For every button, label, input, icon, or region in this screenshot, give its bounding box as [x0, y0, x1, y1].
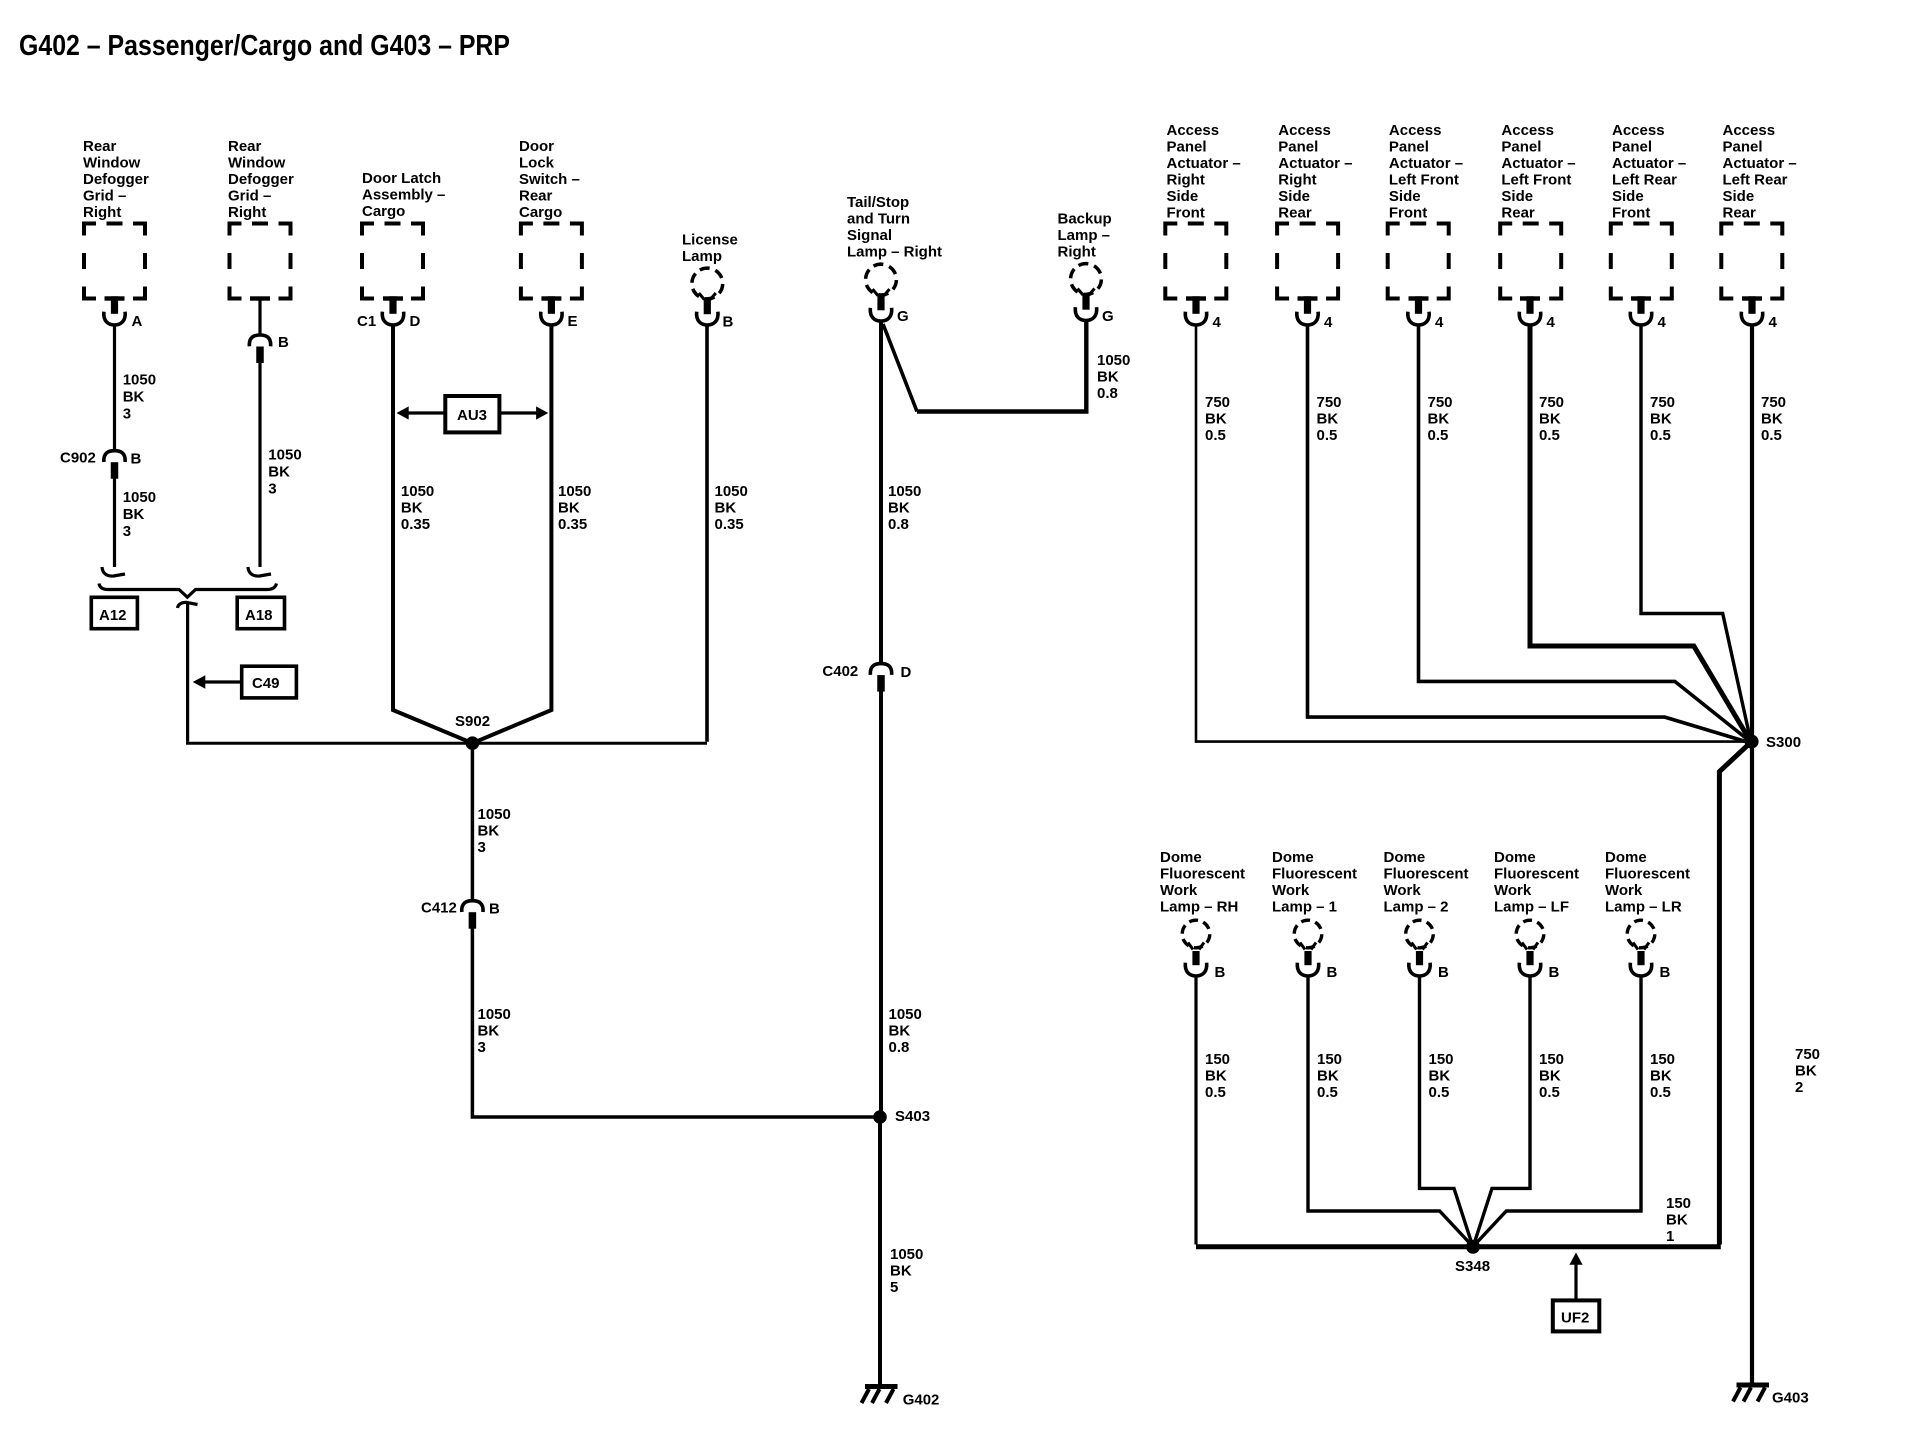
svg-text:Panel: Panel: [1501, 139, 1541, 156]
svg-text:S300: S300: [1766, 734, 1801, 751]
wire label 1050 BK 3 (S902-C412): [478, 806, 511, 856]
harness reference AU3 box: [445, 396, 499, 432]
svg-text:Lamp: Lamp: [682, 248, 722, 265]
svg-text:D: D: [410, 313, 421, 330]
component box: Rear Window Defogger Grid - Right (1): [84, 224, 145, 299]
svg-text:750: 750: [1650, 394, 1675, 411]
svg-text:Panel: Panel: [1723, 139, 1763, 156]
svg-text:BK: BK: [889, 1023, 911, 1040]
svg-text:Work: Work: [1160, 882, 1198, 899]
svg-text:1050: 1050: [888, 483, 921, 500]
svg-text:Side: Side: [1167, 188, 1199, 205]
wire: actuator 6 down through S300 to ground G403: [1750, 327, 1754, 1386]
svg-text:Door Latch: Door Latch: [362, 170, 441, 187]
wire label 1050 BK 0.8 (tail lamp upper): [888, 483, 921, 533]
svg-text:Access: Access: [1723, 122, 1776, 139]
svg-text:Work: Work: [1494, 882, 1532, 899]
svg-text:BK: BK: [715, 500, 737, 517]
svg-text:150: 150: [1539, 1051, 1564, 1068]
svg-text:Fluorescent: Fluorescent: [1605, 866, 1690, 883]
svg-text:Actuator –: Actuator –: [1501, 155, 1575, 172]
svg-text:Left Rear: Left Rear: [1723, 172, 1788, 189]
wire: S902 down to C412: [471, 743, 475, 901]
svg-text:BK: BK: [1097, 369, 1119, 386]
svg-text:BK: BK: [1666, 1212, 1688, 1229]
svg-text:1050: 1050: [478, 806, 511, 823]
wire label 1050 BK 0.35 (door lock): [558, 483, 591, 533]
svg-text:S403: S403: [895, 1108, 930, 1125]
svg-text:0.8: 0.8: [888, 516, 909, 533]
svg-text:G: G: [1102, 308, 1114, 325]
wire label 750 BK 0.5 (5): [1650, 394, 1675, 444]
svg-text:Switch –: Switch –: [519, 171, 580, 188]
svg-text:UF2: UF2: [1561, 1310, 1589, 1327]
wire: brace down to splice bus: [186, 603, 189, 742]
component box: Door Latch Assembly - Cargo: [362, 224, 423, 299]
svg-text:750: 750: [1795, 1046, 1820, 1063]
svg-text:1050: 1050: [715, 483, 748, 500]
component box: Access Panel Actuator - Left Front Side Rear: [1500, 224, 1561, 299]
svg-text:BK: BK: [558, 500, 580, 517]
component label: Dome Fluorescent Work Lamp - RH: [1160, 849, 1245, 916]
splice S403: [873, 1110, 887, 1124]
svg-text:750: 750: [1761, 394, 1786, 411]
splice S348: [1466, 1240, 1480, 1254]
svg-text:0.5: 0.5: [1650, 1084, 1671, 1101]
splice S902: [466, 736, 480, 750]
svg-text:Cargo: Cargo: [519, 204, 562, 221]
lamp symbol: Dome Fluorescent Work Lamp - LF: [1511, 915, 1549, 976]
wire: S403 down to ground G402: [878, 1117, 882, 1385]
svg-text:BK: BK: [1650, 1068, 1672, 1085]
wire: backup lamp down and left: [917, 322, 1086, 412]
connector pin 4 of Access Panel Actuator - Left Front Side Rear: [1519, 296, 1540, 325]
svg-text:BK: BK: [888, 500, 910, 517]
wire: actuator 4 to S300: [1530, 327, 1750, 741]
wire label 1050 BK 0.8 (C402-S403): [889, 1006, 922, 1056]
wire: door lock down: [472, 327, 551, 744]
component label: Rear Window Defogger Grid - Right (2): [228, 138, 294, 221]
svg-text:1050: 1050: [401, 483, 434, 500]
lamp symbol: Dome Fluorescent Work Lamp - LR: [1622, 915, 1660, 976]
wire: diagonal from tail lamp joint to backup lamp run: [883, 324, 917, 412]
wire label 750 BK 0.5 (6): [1761, 394, 1786, 444]
svg-text:BK: BK: [401, 500, 423, 517]
svg-text:BK: BK: [123, 506, 145, 523]
svg-text:B: B: [131, 451, 142, 468]
svg-text:BK: BK: [1761, 411, 1783, 428]
svg-text:Window: Window: [83, 155, 141, 172]
svg-text:Lamp – 1: Lamp – 1: [1272, 899, 1337, 916]
component box: Access Panel Actuator - Right Side Rear: [1277, 224, 1338, 299]
svg-text:3: 3: [268, 481, 276, 498]
svg-text:Cargo: Cargo: [362, 203, 405, 220]
svg-text:Actuator –: Actuator –: [1167, 155, 1241, 172]
terminal box A18: [237, 597, 284, 628]
svg-text:Fluorescent: Fluorescent: [1272, 866, 1357, 883]
svg-text:Front: Front: [1612, 205, 1650, 222]
svg-text:Left Rear: Left Rear: [1612, 172, 1677, 189]
svg-text:Access: Access: [1389, 122, 1442, 139]
svg-text:0.5: 0.5: [1761, 427, 1782, 444]
terminal box A12: [91, 597, 137, 628]
svg-text:Front: Front: [1389, 205, 1427, 222]
connector reference C49 box: [242, 666, 297, 698]
svg-text:BK: BK: [268, 464, 290, 481]
svg-text:1050: 1050: [123, 372, 156, 389]
component label: Door Lock Switch - Rear Cargo: [519, 138, 580, 221]
svg-text:150: 150: [1429, 1051, 1454, 1068]
svg-text:0.5: 0.5: [1539, 427, 1560, 444]
component label: Access Panel Actuator - Right Side Front: [1167, 122, 1241, 222]
svg-text:Fluorescent: Fluorescent: [1160, 866, 1245, 883]
svg-text:Defogger: Defogger: [83, 171, 149, 188]
svg-text:150: 150: [1650, 1051, 1675, 1068]
component box: Access Panel Actuator - Right Side Front: [1165, 224, 1226, 299]
svg-text:C412: C412: [421, 900, 457, 917]
svg-text:150: 150: [1317, 1051, 1342, 1068]
arrow from C49 to wire: [205, 680, 242, 683]
lamp symbol: License Lamp: [686, 263, 728, 325]
component label: Access Panel Actuator - Left Rear Side Front: [1612, 122, 1686, 222]
component box: Access Panel Actuator - Left Front Side Front: [1388, 224, 1449, 299]
svg-text:A12: A12: [99, 607, 127, 624]
svg-text:Right: Right: [1058, 244, 1096, 261]
svg-text:Grid –: Grid –: [83, 188, 126, 205]
svg-text:BK: BK: [1205, 1068, 1227, 1085]
connector C1 pin D of Door Latch: [382, 296, 403, 325]
svg-text:Dome: Dome: [1160, 849, 1202, 866]
svg-text:Side: Side: [1723, 188, 1755, 205]
svg-text:Rear: Rear: [1723, 205, 1757, 222]
svg-text:C49: C49: [252, 675, 280, 692]
svg-text:B: B: [1438, 964, 1449, 981]
svg-text:Defogger: Defogger: [228, 171, 294, 188]
svg-text:Window: Window: [228, 155, 286, 172]
ground symbol G402: [862, 1387, 898, 1404]
wire: dome lamp 1 to S348: [1308, 978, 1471, 1245]
svg-text:Grid –: Grid –: [228, 188, 271, 205]
svg-text:3: 3: [123, 523, 131, 540]
component label: Dome Fluorescent Work Lamp - 2: [1384, 849, 1469, 916]
svg-text:B: B: [723, 314, 734, 331]
svg-text:BK: BK: [1317, 411, 1339, 428]
svg-text:E: E: [568, 313, 578, 330]
hook below brace: [178, 602, 198, 608]
svg-text:750: 750: [1205, 394, 1230, 411]
wire label 750 BK 0.5 (1): [1205, 394, 1230, 444]
lamp symbol: Dome Fluorescent Work Lamp - 1: [1289, 915, 1327, 976]
svg-text:Rear: Rear: [83, 138, 117, 155]
wire: C412 down and right to S403: [472, 928, 880, 1117]
svg-text:C902: C902: [60, 450, 96, 467]
UF2 arrow up to bus: [1574, 1264, 1577, 1300]
component box: Door Lock Switch - Rear Cargo: [521, 224, 582, 299]
svg-text:Access: Access: [1501, 122, 1554, 139]
wire label 750 BK 0.5 (2): [1317, 394, 1342, 444]
svg-text:1050: 1050: [558, 483, 591, 500]
svg-text:Panel: Panel: [1278, 139, 1318, 156]
wire label 750 BK 0.5 (4): [1539, 394, 1564, 444]
component label: Access Panel Actuator - Right Side Rear: [1278, 122, 1352, 222]
in-line connector pin B of grid 2: [249, 335, 270, 363]
component box: Access Panel Actuator - Left Rear Side Rear: [1721, 224, 1782, 299]
wire label 750 BK 2: [1795, 1046, 1820, 1096]
component label: Backup Lamp - Right: [1058, 211, 1112, 261]
wire label 150 BK 0.5 (4): [1539, 1051, 1564, 1101]
svg-text:750: 750: [1539, 394, 1564, 411]
svg-text:Left Front: Left Front: [1501, 172, 1571, 189]
wire-end hook right: [248, 567, 271, 576]
wire: actuator 3 to S300: [1419, 327, 1750, 742]
svg-text:G402: G402: [903, 1392, 940, 1409]
connector pin 4 of Access Panel Actuator - Left Rear Side Front: [1630, 296, 1651, 325]
svg-text:Lock: Lock: [519, 155, 555, 172]
svg-text:BK: BK: [1795, 1063, 1817, 1080]
svg-text:150: 150: [1205, 1051, 1230, 1068]
svg-text:0.35: 0.35: [558, 516, 587, 533]
svg-text:Panel: Panel: [1389, 139, 1429, 156]
svg-text:AU3: AU3: [457, 407, 487, 424]
svg-text:3: 3: [478, 839, 486, 856]
svg-text:Rear: Rear: [1278, 205, 1312, 222]
wire label 1050 BK 0.35 (license lamp): [715, 483, 748, 533]
svg-text:BK: BK: [1650, 411, 1672, 428]
lamp symbol: Backup Lamp - Right: [1065, 258, 1107, 320]
svg-text:Backup: Backup: [1058, 211, 1112, 228]
svg-text:150: 150: [1666, 1195, 1691, 1212]
wire label 150 BK 0.5 (3): [1429, 1051, 1454, 1101]
in-line connector C902 pin B: [104, 451, 125, 479]
wire label 1050 BK 3 (grid 1 upper): [123, 372, 156, 423]
svg-text:Signal: Signal: [847, 227, 892, 244]
component label: Door Latch Assembly - Cargo: [362, 170, 445, 220]
wire label 1050 BK 5: [890, 1246, 923, 1296]
svg-text:and Turn: and Turn: [847, 211, 910, 228]
component label: Tail/Stop and Turn Signal Lamp - Right: [847, 194, 942, 261]
svg-text:Work: Work: [1272, 882, 1310, 899]
connector pin 4 of Access Panel Actuator - Left Rear Side Rear: [1741, 296, 1762, 325]
svg-text:Lamp – RH: Lamp – RH: [1160, 899, 1238, 916]
svg-text:4: 4: [1324, 314, 1333, 331]
svg-text:Fluorescent: Fluorescent: [1384, 866, 1469, 883]
svg-text:1050: 1050: [889, 1006, 922, 1023]
wire label 750 BK 0.5 (3): [1428, 394, 1453, 444]
svg-text:C402: C402: [822, 663, 858, 680]
svg-text:4: 4: [1658, 314, 1667, 331]
svg-text:Lamp – LR: Lamp – LR: [1605, 899, 1682, 916]
svg-text:BK: BK: [478, 823, 500, 840]
component label: Rear Window Defogger Grid - Right (1): [83, 138, 149, 221]
fuse reference UF2 box: [1553, 1300, 1600, 1331]
svg-text:Side: Side: [1389, 188, 1421, 205]
svg-text:Actuator –: Actuator –: [1278, 155, 1352, 172]
in-line connector C402 pin D: [870, 664, 891, 692]
svg-text:G: G: [897, 308, 909, 325]
wire-end hook left: [102, 567, 125, 576]
connector pin A of Rear Window Defogger Grid (1): [104, 296, 125, 325]
component label: Dome Fluorescent Work Lamp - 1: [1272, 849, 1357, 916]
ground symbol G403: [1733, 1385, 1769, 1402]
svg-text:Side: Side: [1278, 188, 1310, 205]
wire: S348 ground bus: [1196, 1244, 1721, 1249]
svg-text:Dome: Dome: [1494, 849, 1536, 866]
svg-text:B: B: [1549, 964, 1560, 981]
svg-text:0.5: 0.5: [1428, 427, 1449, 444]
connector pin E of Door Lock Switch: [541, 296, 562, 325]
svg-text:BK: BK: [123, 389, 145, 406]
svg-text:C1: C1: [357, 313, 376, 330]
wire: grid 2 down to connector B: [258, 298, 261, 336]
wire: actuator 5 to S300: [1641, 327, 1751, 741]
svg-text:BK: BK: [890, 1263, 912, 1280]
svg-text:A: A: [132, 313, 143, 330]
svg-text:Lamp – Right: Lamp – Right: [847, 244, 942, 261]
svg-text:0.5: 0.5: [1539, 1084, 1560, 1101]
svg-text:1050: 1050: [478, 1006, 511, 1023]
svg-text:Rear: Rear: [519, 188, 553, 205]
svg-text:Tail/Stop: Tail/Stop: [847, 194, 909, 211]
svg-text:D: D: [901, 664, 912, 681]
svg-text:0.8: 0.8: [889, 1039, 910, 1056]
svg-text:BK: BK: [1539, 1068, 1561, 1085]
svg-text:5: 5: [890, 1279, 898, 1296]
svg-text:Side: Side: [1612, 188, 1644, 205]
svg-text:0.35: 0.35: [401, 516, 430, 533]
svg-text:Actuator –: Actuator –: [1723, 155, 1797, 172]
svg-text:Right: Right: [83, 204, 121, 221]
splice S300: [1745, 735, 1759, 749]
svg-text:Dome: Dome: [1605, 849, 1647, 866]
brace joining defogger ground wires: [99, 584, 277, 598]
svg-text:BK: BK: [1428, 411, 1450, 428]
wire: actuator 2 to S300: [1308, 327, 1750, 743]
svg-text:1: 1: [1666, 1228, 1674, 1245]
wire: defogger grid 1 pin A down to C902: [113, 327, 116, 452]
svg-text:2: 2: [1795, 1079, 1803, 1096]
wire: actuator 1 to S300: [1196, 327, 1748, 742]
wire: dome lamp LF to S348: [1474, 978, 1530, 1245]
svg-text:Left Front: Left Front: [1389, 172, 1459, 189]
svg-text:Lamp – 2: Lamp – 2: [1384, 899, 1449, 916]
wire: S300 down-left to dome lamp bus: [1719, 742, 1751, 1245]
wire: dome lamp LR to S348: [1475, 978, 1641, 1245]
svg-text:0.35: 0.35: [715, 516, 744, 533]
svg-text:G403: G403: [1772, 1390, 1809, 1407]
component label: Access Panel Actuator - Left Rear Side Rear: [1723, 122, 1797, 222]
svg-text:Front: Front: [1167, 205, 1205, 222]
wire: C402 down to S403: [879, 691, 883, 1117]
svg-text:BK: BK: [478, 1023, 500, 1040]
svg-text:0.5: 0.5: [1650, 427, 1671, 444]
svg-text:Rear: Rear: [1501, 205, 1535, 222]
svg-text:Panel: Panel: [1612, 139, 1652, 156]
svg-text:B: B: [1215, 964, 1226, 981]
svg-text:Dome: Dome: [1384, 849, 1426, 866]
wire: C902 down to brace: [113, 478, 116, 567]
svg-text:License: License: [682, 232, 738, 249]
svg-text:Fluorescent: Fluorescent: [1494, 866, 1579, 883]
svg-text:4: 4: [1213, 314, 1222, 331]
svg-text:4: 4: [1435, 314, 1444, 331]
wire: grid 2 connector down to brace: [258, 362, 261, 567]
component box: Rear Window Defogger Grid - Right (2): [230, 224, 291, 299]
svg-text:0.8: 0.8: [1097, 385, 1118, 402]
component label: Dome Fluorescent Work Lamp - LR: [1605, 849, 1690, 916]
svg-text:Actuator –: Actuator –: [1389, 155, 1463, 172]
lamp symbol: Dome Fluorescent Work Lamp - RH: [1177, 915, 1215, 976]
svg-text:Right: Right: [228, 204, 266, 221]
wire label 1050 BK 3 (grid 2): [268, 447, 301, 498]
svg-text:B: B: [1327, 964, 1338, 981]
svg-text:Access: Access: [1612, 122, 1665, 139]
svg-text:Access: Access: [1278, 122, 1331, 139]
lamp symbol: Tail/Stop and Turn Signal Lamp - Right: [860, 259, 902, 321]
svg-text:BK: BK: [1317, 1068, 1339, 1085]
wire label 1050 BK 3 (C412-S403): [478, 1006, 511, 1056]
component label: Access Panel Actuator - Left Front Side Rear: [1501, 122, 1575, 222]
wire: dome lamp 2 to S348: [1420, 978, 1473, 1245]
svg-text:1050: 1050: [1097, 352, 1130, 369]
svg-text:Access: Access: [1167, 122, 1220, 139]
svg-text:0.5: 0.5: [1317, 427, 1338, 444]
svg-text:A18: A18: [245, 607, 273, 624]
svg-text:Lamp –: Lamp –: [1058, 227, 1111, 244]
svg-text:Panel: Panel: [1167, 139, 1207, 156]
svg-text:0.5: 0.5: [1317, 1084, 1338, 1101]
svg-text:Dome: Dome: [1272, 849, 1314, 866]
connector pin 4 of Access Panel Actuator - Right Side Rear: [1297, 296, 1318, 325]
wire label 150 BK 1: [1666, 1195, 1691, 1245]
svg-text:Lamp – LF: Lamp – LF: [1494, 899, 1569, 916]
component label: Access Panel Actuator - Left Front Side Front: [1389, 122, 1463, 222]
connector pin 4 of Access Panel Actuator - Left Front Side Front: [1408, 296, 1429, 325]
svg-text:Assembly –: Assembly –: [362, 187, 445, 204]
wire: door latch down: [393, 327, 472, 744]
svg-text:BK: BK: [1429, 1068, 1451, 1085]
svg-text:Rear: Rear: [228, 138, 262, 155]
svg-text:G402 – Passenger/Cargo and G40: G402 – Passenger/Cargo and G403 – PRP: [19, 30, 510, 62]
svg-text:Side: Side: [1501, 188, 1533, 205]
AU3 right arrow: [499, 411, 536, 414]
pin stub of grid 2: [250, 296, 270, 300]
wire label 1050 BK 3 (grid 1 lower): [123, 489, 156, 540]
svg-text:4: 4: [1769, 314, 1778, 331]
svg-text:S902: S902: [455, 713, 490, 730]
svg-text:BK: BK: [1539, 411, 1561, 428]
component label: Dome Fluorescent Work Lamp - LF: [1494, 849, 1579, 916]
svg-text:0.5: 0.5: [1429, 1084, 1450, 1101]
wire label 1050 BK 0.8 (backup lamp): [1097, 352, 1130, 402]
svg-text:Actuator –: Actuator –: [1612, 155, 1686, 172]
svg-text:750: 750: [1317, 394, 1342, 411]
wire label 150 BK 0.5 (5): [1650, 1051, 1675, 1101]
wire: license lamp down to bus: [705, 327, 709, 742]
svg-text:3: 3: [478, 1039, 486, 1056]
svg-text:S348: S348: [1455, 1258, 1490, 1275]
svg-text:Work: Work: [1384, 882, 1422, 899]
svg-text:1050: 1050: [890, 1246, 923, 1263]
wire label 150 BK 0.5 (1): [1205, 1051, 1230, 1101]
svg-text:B: B: [1660, 964, 1671, 981]
wire label 1050 BK 0.35 (door latch): [401, 483, 434, 533]
svg-text:4: 4: [1547, 314, 1556, 331]
svg-text:0.5: 0.5: [1205, 1084, 1226, 1101]
AU3 left arrow: [408, 411, 445, 414]
svg-text:750: 750: [1428, 394, 1453, 411]
wire: tail/stop lamp down to C402: [879, 323, 883, 665]
svg-text:BK: BK: [1205, 411, 1227, 428]
